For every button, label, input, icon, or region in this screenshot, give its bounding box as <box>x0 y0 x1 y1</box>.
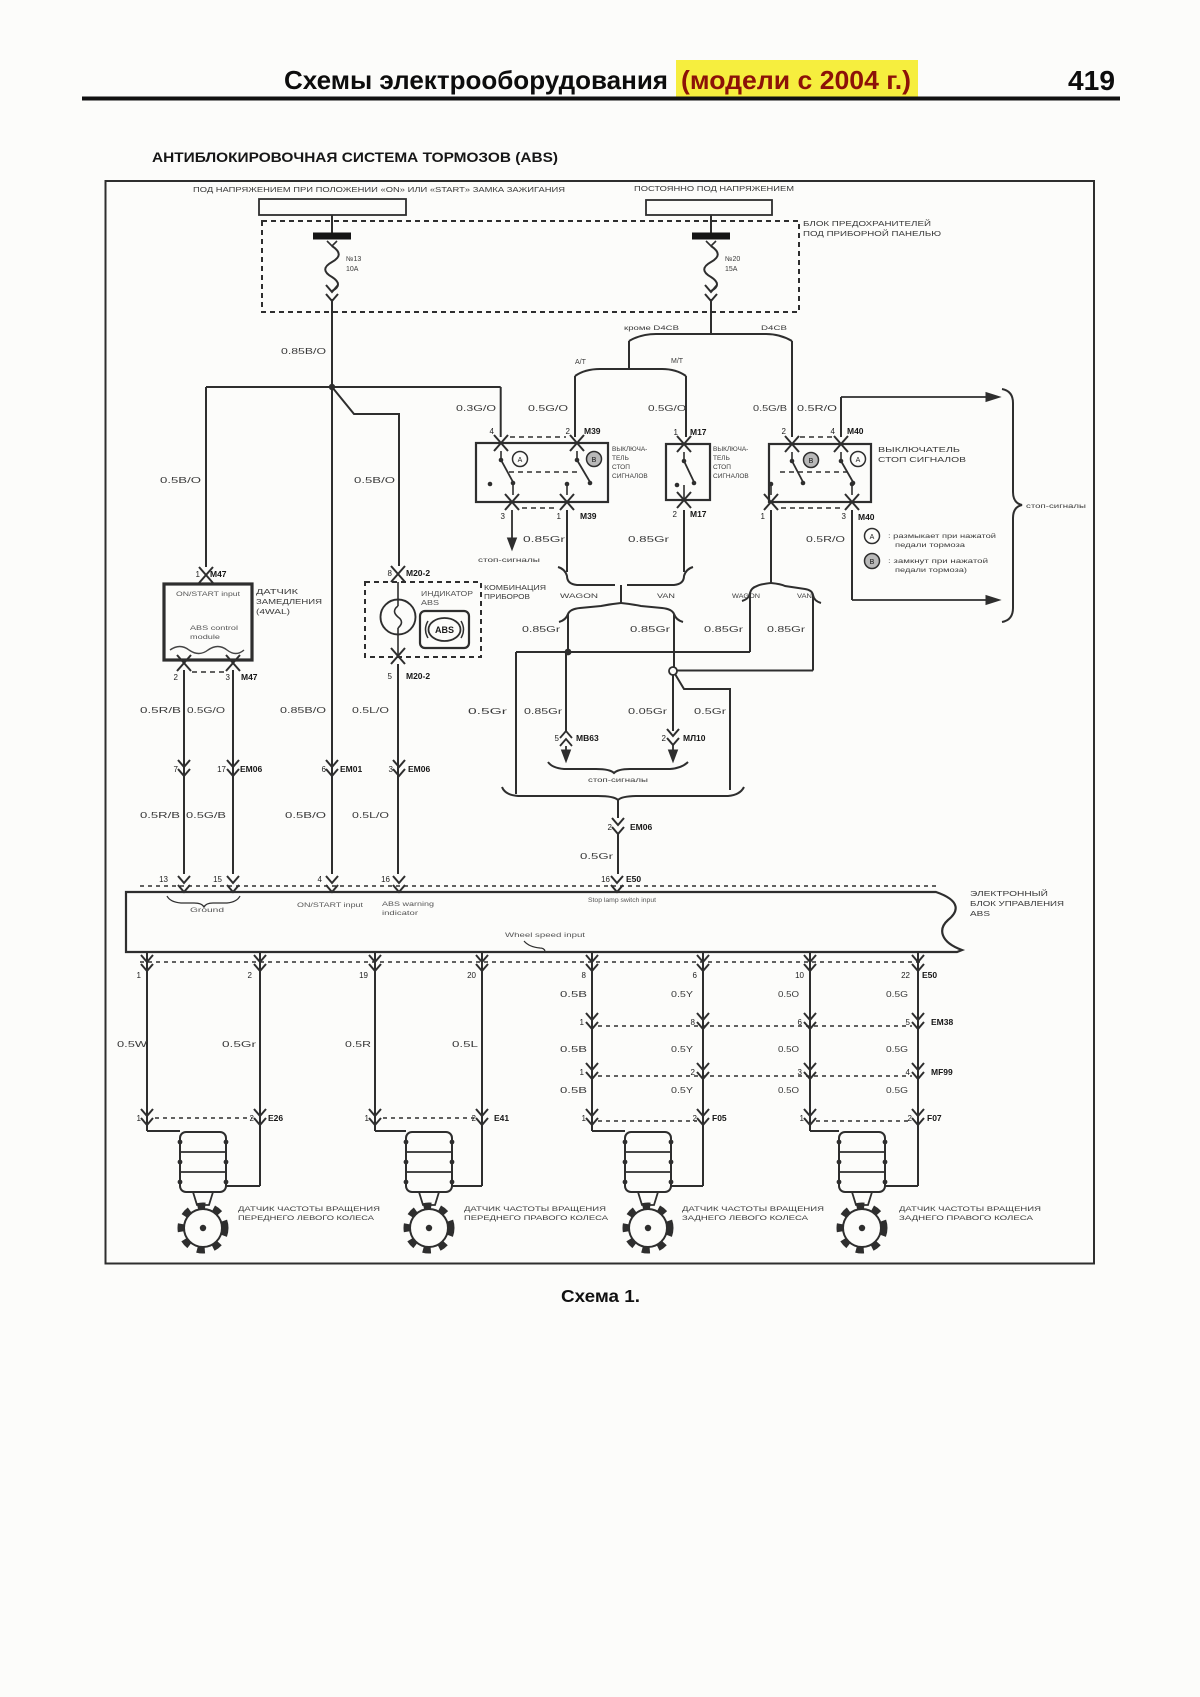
svg-text:A: A <box>518 457 523 464</box>
svg-text:8: 8 <box>691 1018 696 1027</box>
svg-text:ABS control: ABS control <box>190 625 239 632</box>
svg-text:WAGON: WAGON <box>732 593 760 600</box>
svg-text:B: B <box>809 458 814 465</box>
svg-text:М20-2: М20-2 <box>406 671 430 681</box>
svg-text:VAN: VAN <box>657 593 675 600</box>
svg-text:2: 2 <box>248 971 253 980</box>
svg-text:3: 3 <box>798 1068 803 1077</box>
svg-text:1: 1 <box>674 428 679 437</box>
svg-text:СТОП СИГНАЛОВ: СТОП СИГНАЛОВ <box>878 455 966 464</box>
svg-text:0.3G/О: 0.3G/О <box>456 404 496 413</box>
svg-text:3: 3 <box>842 512 847 521</box>
svg-text:2: 2 <box>662 734 667 743</box>
svg-text:0.5В/О: 0.5В/О <box>160 476 201 485</box>
svg-text:EM06: EM06 <box>408 764 430 774</box>
svg-text:1: 1 <box>580 1068 585 1077</box>
svg-text:0.5G/В: 0.5G/В <box>753 404 787 413</box>
svg-text:0.5B: 0.5B <box>560 990 587 999</box>
svg-text:ДАТЧИК ЧАСТОТЫ ВРАЩЕНИЯ: ДАТЧИК ЧАСТОТЫ ВРАЩЕНИЯ <box>238 1206 380 1213</box>
svg-text:БЛОК УПРАВЛЕНИЯ: БЛОК УПРАВЛЕНИЯ <box>970 899 1064 908</box>
svg-text:ABS warning: ABS warning <box>382 901 435 908</box>
svg-text:1: 1 <box>365 1114 370 1123</box>
svg-text:6: 6 <box>322 765 327 774</box>
svg-text:2: 2 <box>472 1114 477 1123</box>
svg-text:7: 7 <box>174 765 179 774</box>
svg-text:0.5В/О: 0.5В/О <box>285 811 326 820</box>
svg-text:ЗАДНЕГО ЛЕВОГО КОЛЕСА: ЗАДНЕГО ЛЕВОГО КОЛЕСА <box>682 1215 809 1222</box>
svg-text:0.85Gr: 0.85Gr <box>704 625 744 634</box>
svg-text:ТЕЛЬ: ТЕЛЬ <box>713 455 730 462</box>
svg-text:1: 1 <box>761 512 766 521</box>
svg-text:0.5Gr: 0.5Gr <box>222 1040 257 1049</box>
svg-text:15A: 15A <box>725 266 738 273</box>
svg-text:ДАТЧИК ЧАСТОТЫ ВРАЩЕНИЯ: ДАТЧИК ЧАСТОТЫ ВРАЩЕНИЯ <box>682 1206 824 1213</box>
svg-text:F05: F05 <box>712 1113 727 1123</box>
svg-text:ЗАДНЕГО ПРАВОГО КОЛЕСА: ЗАДНЕГО ПРАВОГО КОЛЕСА <box>899 1215 1034 1222</box>
svg-text:СТОП: СТОП <box>713 464 731 471</box>
svg-text:2: 2 <box>566 427 571 436</box>
svg-text:4: 4 <box>490 427 495 436</box>
svg-text:БЛОК ПРЕДОХРАНИТЕЛЕЙ: БЛОК ПРЕДОХРАНИТЕЛЕЙ <box>803 219 931 228</box>
svg-text:8: 8 <box>388 569 393 578</box>
svg-text:ON/START input: ON/START input <box>297 902 363 909</box>
svg-text:СИГНАЛОВ: СИГНАЛОВ <box>713 473 749 480</box>
svg-text:стоп-сигналы: стоп-сигналы <box>478 558 540 564</box>
svg-text:20: 20 <box>467 971 476 980</box>
svg-text:ДАТЧИК ЧАСТОТЫ ВРАЩЕНИЯ: ДАТЧИК ЧАСТОТЫ ВРАЩЕНИЯ <box>464 1206 606 1213</box>
svg-text:EM06: EM06 <box>630 822 652 832</box>
svg-text:10A: 10A <box>346 266 359 273</box>
svg-text:КОМБИНАЦИЯ: КОМБИНАЦИЯ <box>484 585 546 592</box>
svg-text:стоп-сигналы: стоп-сигналы <box>1026 503 1086 510</box>
svg-text:B: B <box>870 559 875 566</box>
svg-text:22: 22 <box>901 971 910 980</box>
svg-text:0.85Gr: 0.85Gr <box>524 707 563 716</box>
svg-text:0.5Gr: 0.5Gr <box>580 852 614 861</box>
svg-text:indicator: indicator <box>382 910 419 917</box>
svg-text:0.5G/B: 0.5G/B <box>186 811 226 820</box>
svg-text:М47: М47 <box>241 672 258 682</box>
svg-text:2: 2 <box>691 1068 696 1077</box>
svg-text:3: 3 <box>226 673 231 682</box>
svg-text:MF99: MF99 <box>931 1067 953 1077</box>
svg-text:E50: E50 <box>626 874 641 884</box>
svg-text:0.5Y: 0.5Y <box>671 990 694 999</box>
svg-text:2: 2 <box>673 510 678 519</box>
svg-text:М17: М17 <box>690 509 707 519</box>
svg-text:ПОСТОЯННО ПОД НАПРЯЖЕНИЕМ: ПОСТОЯННО ПОД НАПРЯЖЕНИЕМ <box>634 186 794 193</box>
svg-text:: размыкает при нажатой: : размыкает при нажатой <box>888 532 997 540</box>
svg-text:МЛ10: МЛ10 <box>683 733 706 743</box>
svg-text:6: 6 <box>798 1018 803 1027</box>
svg-text:D4CB: D4CB <box>761 326 787 332</box>
svg-text:ИНДИКАТОР: ИНДИКАТОР <box>421 591 473 598</box>
svg-text:М40: М40 <box>858 512 875 522</box>
svg-text:ТЕЛЬ: ТЕЛЬ <box>612 455 629 462</box>
svg-text:ДАТЧИК: ДАТЧИК <box>256 587 299 596</box>
svg-text:СИГНАЛОВ: СИГНАЛОВ <box>612 473 648 480</box>
svg-text:3: 3 <box>501 512 506 521</box>
svg-text:0.5W: 0.5W <box>117 1040 148 1049</box>
svg-text:М47: М47 <box>210 569 227 579</box>
svg-text:0.5Y: 0.5Y <box>671 1045 694 1054</box>
svg-text:ВЫКЛЮЧА-: ВЫКЛЮЧА- <box>612 446 647 453</box>
svg-text:ABS: ABS <box>970 909 990 918</box>
svg-text:0.5Gr: 0.5Gr <box>694 707 727 716</box>
svg-text:1: 1 <box>196 570 201 579</box>
svg-text:E50: E50 <box>922 970 937 980</box>
svg-text:0.5О: 0.5О <box>778 990 799 999</box>
svg-text:стоп-сигналы: стоп-сигналы <box>588 778 648 784</box>
svg-text:0.5В/О: 0.5В/О <box>354 476 395 485</box>
svg-text:A: A <box>870 534 875 541</box>
svg-text:Ground: Ground <box>190 907 225 914</box>
svg-text:ABS: ABS <box>435 625 454 635</box>
svg-text:ABS: ABS <box>421 600 439 607</box>
svg-text:0.85Gr: 0.85Gr <box>522 625 561 634</box>
svg-text:419: 419 <box>1068 65 1115 96</box>
svg-text:4: 4 <box>831 427 836 436</box>
svg-text:0.5О: 0.5О <box>778 1045 799 1054</box>
svg-text:ПРИБОРОВ: ПРИБОРОВ <box>484 594 530 601</box>
svg-text:0.85В/О: 0.85В/О <box>280 706 326 715</box>
svg-text:ВЫКЛЮЧАТЕЛЬ: ВЫКЛЮЧАТЕЛЬ <box>878 445 960 454</box>
svg-text:кроме D4CB: кроме D4CB <box>624 326 679 332</box>
svg-text:ПЕРЕДНЕГО ПРАВОГО КОЛЕСА: ПЕРЕДНЕГО ПРАВОГО КОЛЕСА <box>464 1215 609 1222</box>
svg-text:MB63: MB63 <box>576 733 599 743</box>
svg-text:0.5О: 0.5О <box>778 1086 799 1095</box>
svg-text:13: 13 <box>159 875 168 884</box>
svg-text:1: 1 <box>582 1114 587 1123</box>
svg-text:: замкнут при нажатой: : замкнут при нажатой <box>888 557 989 565</box>
svg-text:2: 2 <box>908 1114 913 1123</box>
svg-text:0.5L/О: 0.5L/О <box>352 706 389 715</box>
svg-text:ДАТЧИК ЧАСТОТЫ ВРАЩЕНИЯ: ДАТЧИК ЧАСТОТЫ ВРАЩЕНИЯ <box>899 1206 1041 1213</box>
svg-text:0.85Gr: 0.85Gr <box>630 625 671 634</box>
svg-text:15: 15 <box>213 875 222 884</box>
svg-text:1: 1 <box>800 1114 805 1123</box>
svg-text:0.5G: 0.5G <box>886 1045 908 1054</box>
svg-text:2: 2 <box>174 673 179 682</box>
svg-text:16: 16 <box>381 875 390 884</box>
svg-text:17: 17 <box>217 765 226 774</box>
svg-text:1: 1 <box>137 1114 142 1123</box>
svg-text:EM06: EM06 <box>240 764 262 774</box>
svg-text:0.5L/О: 0.5L/О <box>352 811 389 820</box>
svg-text:ЗАМЕДЛЕНИЯ: ЗАМЕДЛЕНИЯ <box>256 597 322 606</box>
svg-text:1: 1 <box>557 512 562 521</box>
svg-text:5: 5 <box>388 672 393 681</box>
svg-text:СТОП: СТОП <box>612 464 630 471</box>
svg-text:0.5Gr: 0.5Gr <box>468 707 508 716</box>
svg-text:2: 2 <box>250 1114 255 1123</box>
svg-text:3: 3 <box>389 765 394 774</box>
svg-text:8: 8 <box>582 971 587 980</box>
svg-text:(4WAL): (4WAL) <box>256 607 291 616</box>
svg-text:ПОД ПРИБОРНОЙ ПАНЕЛЬЮ: ПОД ПРИБОРНОЙ ПАНЕЛЬЮ <box>803 229 942 238</box>
svg-text:0.5R/О: 0.5R/О <box>797 404 837 413</box>
svg-text:1: 1 <box>580 1018 585 1027</box>
svg-text:E26: E26 <box>268 1113 283 1123</box>
svg-text:5: 5 <box>555 734 560 743</box>
svg-text:0.85В/О: 0.85В/О <box>281 347 326 356</box>
svg-text:4: 4 <box>318 875 323 884</box>
svg-text:М39: М39 <box>580 511 597 521</box>
svg-text:4: 4 <box>906 1068 911 1077</box>
svg-text:EM01: EM01 <box>340 764 362 774</box>
svg-text:0.5R/B: 0.5R/B <box>140 706 181 715</box>
svg-text:Stop lamp switch input: Stop lamp switch input <box>588 898 656 904</box>
svg-text:0.5R/О: 0.5R/О <box>806 535 845 544</box>
svg-text:0.5R: 0.5R <box>345 1040 371 1049</box>
svg-text:0.5L: 0.5L <box>452 1040 479 1049</box>
svg-text:6: 6 <box>693 971 698 980</box>
svg-text:0.85Gr: 0.85Gr <box>628 535 670 544</box>
svg-text:10: 10 <box>795 971 804 980</box>
svg-text:АНТИБЛОКИРОВОЧНАЯ СИСТЕМА ТОРМ: АНТИБЛОКИРОВОЧНАЯ СИСТЕМА ТОРМОЗОВ (ABS) <box>152 150 558 165</box>
svg-text:А/Т: А/Т <box>575 359 587 366</box>
svg-text:E41: E41 <box>494 1113 509 1123</box>
svg-text:0.5G/О: 0.5G/О <box>648 404 686 413</box>
svg-text:0.5G: 0.5G <box>886 1086 908 1095</box>
svg-text:B: B <box>592 457 597 464</box>
svg-text:EM38: EM38 <box>931 1017 953 1027</box>
svg-text:№13: №13 <box>346 256 361 263</box>
svg-text:module: module <box>190 634 221 641</box>
svg-text:0.85Gr: 0.85Gr <box>767 625 806 634</box>
svg-text:0.5G/О: 0.5G/О <box>187 706 225 715</box>
svg-text:ON/START input: ON/START input <box>176 591 240 598</box>
svg-text:Схемы электрооборудования: Схемы электрооборудования <box>284 65 668 95</box>
svg-text:ЭЛЕКТРОННЫЙ: ЭЛЕКТРОННЫЙ <box>970 889 1048 898</box>
svg-text:VAN: VAN <box>797 593 812 600</box>
svg-text:2: 2 <box>608 823 613 832</box>
svg-text:0.5R/B: 0.5R/B <box>140 811 180 820</box>
svg-text:0.5Y: 0.5Y <box>671 1086 694 1095</box>
svg-text:ПОД НАПРЯЖЕНИЕМ ПРИ ПОЛОЖЕНИИ: ПОД НАПРЯЖЕНИЕМ ПРИ ПОЛОЖЕНИИ «ON» ИЛИ «… <box>193 187 565 194</box>
svg-text:1: 1 <box>137 971 142 980</box>
svg-text:0.5G/О: 0.5G/О <box>528 404 568 413</box>
svg-text:педали тормоза: педали тормоза <box>895 542 966 549</box>
svg-text:0.5B: 0.5B <box>560 1045 587 1054</box>
svg-text:0.5G: 0.5G <box>886 990 908 999</box>
svg-text:2: 2 <box>693 1114 698 1123</box>
svg-text:М39: М39 <box>584 426 601 436</box>
svg-text:F07: F07 <box>927 1113 942 1123</box>
svg-text:М17: М17 <box>690 427 707 437</box>
svg-text:Схема 1.: Схема 1. <box>561 1286 640 1306</box>
svg-text:М40: М40 <box>847 426 864 436</box>
svg-text:ПЕРЕДНЕГО ЛЕВОГО КОЛЕСА: ПЕРЕДНЕГО ЛЕВОГО КОЛЕСА <box>238 1215 375 1222</box>
svg-text:WAGON: WAGON <box>560 593 598 600</box>
svg-text:2: 2 <box>782 427 787 436</box>
svg-text:педали тормоза): педали тормоза) <box>895 567 967 574</box>
svg-text:М/Т: М/Т <box>671 358 684 365</box>
svg-text:5: 5 <box>906 1018 911 1027</box>
svg-text:0.85Gr: 0.85Gr <box>523 535 566 544</box>
svg-text:19: 19 <box>359 971 368 980</box>
svg-text:0.05Gr: 0.05Gr <box>628 707 668 716</box>
svg-text:0.5B: 0.5B <box>560 1086 587 1095</box>
svg-text:№20: №20 <box>725 256 740 263</box>
svg-text:16: 16 <box>601 875 610 884</box>
svg-text:(модели с 2004 г.): (модели с 2004 г.) <box>681 65 911 95</box>
svg-text:A: A <box>856 457 861 464</box>
svg-text:ВЫКЛЮЧА-: ВЫКЛЮЧА- <box>713 446 748 453</box>
svg-text:М20-2: М20-2 <box>406 568 430 578</box>
svg-text:Wheel speed input: Wheel speed input <box>505 932 585 939</box>
